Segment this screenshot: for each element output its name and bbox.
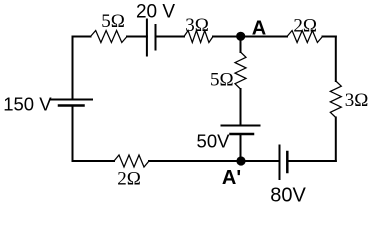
svg-text:3Ω: 3Ω xyxy=(185,15,209,36)
svg-text:2Ω: 2Ω xyxy=(117,168,141,189)
svg-text:A': A' xyxy=(222,167,241,189)
svg-text:2Ω: 2Ω xyxy=(293,15,317,36)
svg-text:150 V: 150 V xyxy=(3,93,52,114)
svg-text:A: A xyxy=(252,17,266,39)
svg-text:50V: 50V xyxy=(197,130,231,151)
svg-text:20 V: 20 V xyxy=(136,1,175,22)
svg-text:5Ω: 5Ω xyxy=(210,69,234,90)
svg-text:80V: 80V xyxy=(270,185,306,203)
svg-text:5Ω: 5Ω xyxy=(101,11,125,32)
svg-text:3Ω: 3Ω xyxy=(345,90,369,111)
